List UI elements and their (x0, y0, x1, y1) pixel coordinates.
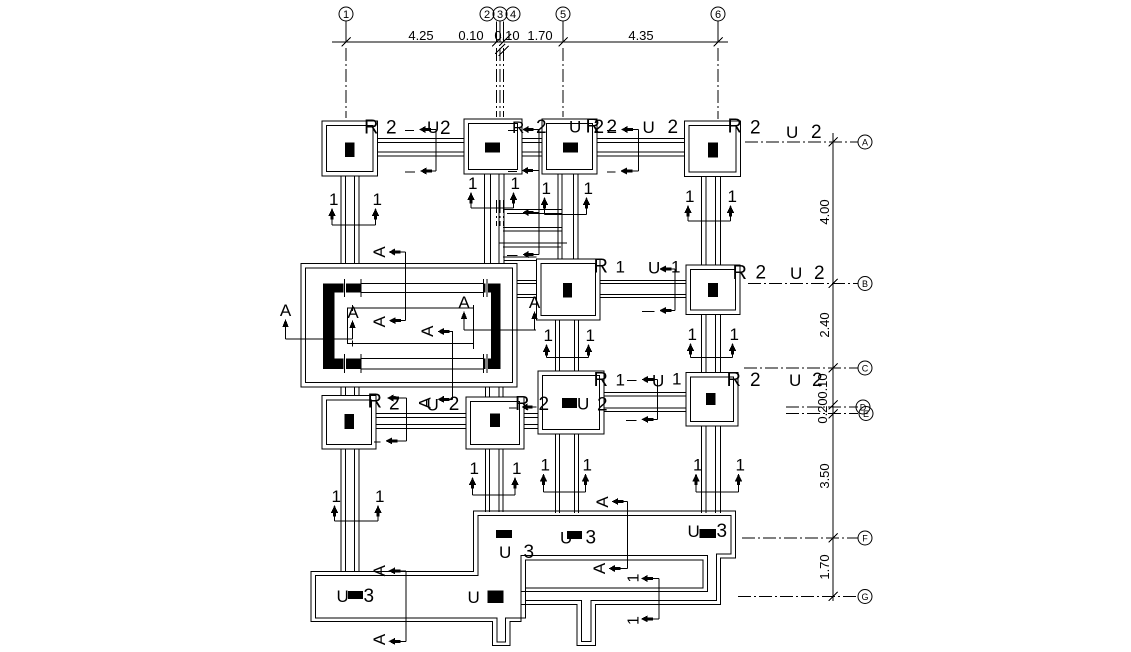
svg-text:2: 2 (811, 122, 822, 143)
centerline grid 1 (345, 48, 347, 118)
svg-text:2: 2 (750, 118, 761, 139)
wall inner pit rectangle (348, 308, 474, 344)
svg-text:3: 3 (717, 521, 728, 542)
wall black block bottom-right (484, 359, 501, 370)
svg-text:0.20: 0.20 (815, 398, 830, 423)
wall black band right (491, 284, 501, 370)
dim tick row F (829, 534, 838, 543)
centerline row C (744, 367, 858, 369)
hook box lower (499, 242, 567, 244)
svg-text:A: A (370, 564, 389, 576)
footing A2 (464, 119, 522, 174)
centerline row F (742, 537, 858, 539)
svg-text:2: 2 (484, 9, 490, 21)
dim tick row C (829, 364, 838, 373)
svg-text:1: 1 (685, 187, 694, 206)
svg-text:R: R (733, 262, 747, 284)
svg-text:2: 2 (440, 118, 451, 139)
grid bubble 2 (480, 7, 494, 21)
svg-text:A: A (593, 496, 612, 508)
svg-text:0.10: 0.10 (494, 28, 519, 43)
tie beam A1-A2 (378, 138, 465, 140)
centerline row D (786, 406, 858, 408)
svg-text:1: 1 (541, 456, 550, 475)
svg-text:U: U (499, 543, 511, 562)
strip footing hole (526, 560, 704, 588)
wall bottom edge lines (361, 358, 484, 360)
right dimension line (832, 133, 834, 601)
tie beam C1-strip (340, 449, 342, 572)
svg-text:5: 5 (560, 9, 566, 21)
svg-text:A: A (370, 633, 389, 645)
svg-text:1: 1 (512, 459, 521, 478)
svg-text:2: 2 (814, 263, 825, 284)
centerline row G (738, 596, 858, 598)
svg-text:4.00: 4.00 (817, 199, 832, 224)
section leader A mid (451, 331, 453, 399)
centerline row B (748, 283, 858, 285)
dim ticks grids 2-3-4 (492, 38, 501, 47)
svg-text:R: R (727, 369, 741, 391)
centerline grid 4 (503, 48, 505, 117)
tie beam A3-B2 (557, 174, 559, 259)
svg-text:U: U (790, 264, 802, 283)
svg-text:1: 1 (329, 190, 338, 209)
svg-text:U: U (569, 118, 581, 137)
svg-text:R: R (728, 116, 742, 138)
grid stem 4 (503, 22, 505, 43)
svg-text:1: 1 (542, 179, 551, 198)
hook box upper (504, 209, 562, 211)
svg-text:1.70: 1.70 (527, 28, 552, 43)
svg-text:R: R (594, 256, 608, 278)
svg-text:1: 1 (584, 179, 593, 198)
wall outer boundary (301, 264, 517, 388)
svg-text:U: U (468, 588, 480, 607)
dim tick row A (829, 138, 838, 147)
grid bubble 5 (556, 7, 570, 21)
svg-text:2: 2 (607, 117, 618, 138)
svg-text:1: 1 (373, 190, 382, 209)
svg-text:1: 1 (626, 573, 643, 582)
footing A3 (542, 119, 597, 174)
strip column mark F left (496, 530, 512, 538)
svg-text:U: U (652, 372, 664, 391)
svg-text:R: R (512, 118, 524, 137)
svg-text:1: 1 (626, 616, 643, 625)
svg-text:A: A (418, 325, 437, 337)
svg-text:R: R (364, 117, 378, 139)
svg-text:3: 3 (586, 528, 597, 549)
top dimension line (332, 41, 728, 43)
wall black block bottom-left (323, 359, 361, 370)
svg-text:F: F (862, 534, 868, 544)
footing B3 column (708, 283, 718, 297)
svg-text:2: 2 (536, 117, 547, 138)
dim tick grid6 (714, 38, 723, 47)
svg-text:4: 4 (510, 9, 516, 21)
svg-text:A: A (280, 301, 292, 320)
svg-text:4.25: 4.25 (408, 28, 433, 43)
svg-text:3: 3 (497, 9, 503, 21)
strip footing inner boundary (316, 516, 732, 643)
tie beam wall-C2 (485, 387, 487, 397)
tie beam C2-strip (485, 449, 487, 512)
svg-text:R: R (368, 391, 382, 413)
grid bubble G (858, 590, 872, 604)
svg-text:6: 6 (715, 9, 721, 21)
leader R1-U1 row D (641, 376, 648, 383)
svg-text:2: 2 (594, 117, 605, 138)
section leader A above wall (405, 252, 407, 321)
dim ticks rows D-E (829, 401, 838, 410)
svg-text:U: U (427, 118, 439, 137)
centerline grid 6 (717, 48, 719, 119)
dim tick grid5 (559, 38, 568, 47)
tie beam A1-wall (340, 176, 342, 264)
grid stem 2 (496, 22, 498, 43)
section leader A bottom-mid (626, 502, 628, 569)
svg-text:1: 1 (375, 487, 384, 506)
wall tick marks (344, 283, 346, 293)
svg-text:2: 2 (539, 394, 550, 415)
svg-text:4.35: 4.35 (628, 28, 653, 43)
hook leader arrows (538, 130, 540, 171)
footing D2 (538, 371, 604, 434)
footing B3 (686, 265, 740, 315)
svg-text:1: 1 (343, 9, 349, 21)
tie beam A2-wall (484, 174, 486, 264)
tie beam A2-A3 (522, 138, 542, 140)
svg-text:1: 1 (730, 325, 739, 344)
dim tick grid1 (342, 38, 351, 47)
svg-text:R: R (594, 369, 608, 391)
svg-text:2: 2 (668, 117, 679, 138)
footing A1 (322, 121, 378, 176)
svg-text:A: A (370, 246, 389, 258)
tie beam A4-B3 (700, 177, 702, 266)
grid stem 6 (717, 21, 719, 42)
footing C2 (466, 397, 524, 449)
svg-text:2: 2 (812, 370, 823, 391)
wall black band left (323, 284, 335, 370)
footing A4 column (708, 143, 718, 158)
centerline row A (745, 141, 858, 143)
grid stem 1 (345, 21, 347, 42)
footing D3 (686, 373, 738, 427)
svg-text:1: 1 (468, 174, 477, 193)
grid stem 5 (562, 21, 564, 42)
svg-text:G: G (861, 592, 868, 602)
svg-text:1: 1 (672, 370, 681, 389)
grid bubble 3 (493, 7, 507, 21)
tie beam A3-A4 (597, 138, 685, 140)
svg-text:A: A (590, 562, 609, 574)
strip footing outer boundary (311, 511, 735, 646)
svg-text:2: 2 (756, 263, 767, 284)
footing A3 column (563, 143, 578, 153)
svg-text:3.50: 3.50 (817, 463, 832, 488)
svg-text:1: 1 (688, 325, 697, 344)
grid bubble B (858, 277, 872, 291)
svg-text:U: U (789, 371, 801, 390)
svg-text:1: 1 (616, 371, 625, 390)
svg-text:1: 1 (332, 487, 341, 506)
svg-text:3: 3 (524, 542, 535, 563)
svg-text:2: 2 (449, 394, 460, 415)
svg-text:3: 3 (364, 586, 375, 607)
svg-text:U: U (337, 587, 349, 606)
footing B2 (537, 259, 601, 320)
svg-text:1: 1 (511, 174, 520, 193)
svg-text:A: A (458, 293, 470, 312)
svg-text:E: E (863, 409, 869, 419)
grid bubble F (858, 531, 872, 545)
svg-text:A: A (347, 303, 359, 322)
svg-text:1: 1 (544, 326, 553, 345)
strip step joint lines (520, 592, 522, 605)
grid bubble 4 (506, 7, 520, 21)
grid bubble 6 (711, 7, 725, 21)
tie beam B2-B3 (600, 279, 686, 281)
svg-text:1: 1 (616, 258, 625, 277)
wall top edge lines (361, 283, 484, 285)
tie beam C2-D2 (524, 413, 538, 415)
grid bubble 1 (339, 7, 353, 21)
dim tick row B (829, 279, 838, 288)
svg-text:1: 1 (693, 456, 702, 475)
svg-text:1: 1 (736, 456, 745, 475)
grid bubble C (858, 361, 872, 375)
tie beam D2-strip (555, 434, 557, 513)
footing A1 column (345, 143, 355, 158)
footing C2 column (490, 414, 500, 428)
svg-text:U: U (688, 522, 700, 541)
grid bubble D (856, 400, 870, 414)
svg-text:U: U (577, 395, 589, 414)
svg-text:1: 1 (671, 258, 680, 277)
pit tick marks (352, 305, 354, 311)
svg-text:C: C (862, 364, 869, 374)
svg-text:A: A (862, 138, 868, 148)
svg-text:1: 1 (586, 326, 595, 345)
footing D2 column (562, 398, 577, 408)
section leader A bottom-left (405, 571, 407, 642)
centerline grid 5 (562, 48, 564, 117)
svg-text:2.40: 2.40 (817, 312, 832, 337)
leader R2-U2 first bay (419, 126, 426, 133)
tie beam D2-D3 (604, 392, 686, 394)
tie beam wall-C1 (340, 387, 342, 396)
svg-text:U: U (786, 123, 798, 142)
centerline grid 2 (496, 48, 498, 117)
leader R1-U1 row B (659, 266, 666, 273)
leader R2-U2 second bay (621, 126, 628, 133)
wall black block top-left (323, 284, 361, 293)
footing C1 (322, 396, 376, 450)
tie beam wall-B2 (517, 279, 537, 281)
wall black block top-right (484, 284, 501, 293)
footing D3 column (706, 393, 716, 405)
svg-text:1.70: 1.70 (817, 554, 832, 579)
svg-text:A: A (529, 293, 541, 312)
leader R2 footing C1 (387, 395, 394, 402)
centerline grid 3 (499, 48, 501, 117)
svg-text:U: U (427, 396, 439, 415)
svg-text:2: 2 (386, 118, 397, 139)
tie beam B3-D3 (700, 315, 702, 373)
svg-text:2: 2 (597, 395, 608, 416)
footing A4 (685, 121, 741, 177)
svg-text:1: 1 (583, 456, 592, 475)
svg-text:2: 2 (750, 370, 761, 391)
grid stem 3 (499, 21, 501, 42)
svg-text:U: U (648, 259, 660, 278)
svg-text:B: B (862, 279, 868, 289)
tie beam D3-strip (700, 426, 702, 513)
svg-text:0.10: 0.10 (458, 28, 483, 43)
tie beam C1-C2 (376, 413, 466, 415)
tie beam B2-D2 (555, 320, 557, 371)
centerline row E (786, 413, 858, 415)
grid bubble E (859, 407, 873, 421)
grid bubble A (858, 135, 872, 149)
footing B2 column (563, 283, 572, 298)
footing A2 column (485, 143, 500, 153)
svg-text:1: 1 (470, 459, 479, 478)
svg-text:U: U (643, 118, 655, 137)
svg-text:1: 1 (728, 187, 737, 206)
svg-text:A: A (370, 315, 389, 327)
dim tick row G (829, 592, 838, 601)
footing C1 column (345, 414, 355, 429)
